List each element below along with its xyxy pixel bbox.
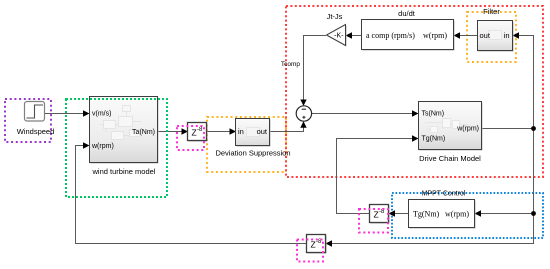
svg-text:Tcomp: Tcomp [281,61,301,68]
svg-text:w(rpm): w(rpm) [445,209,469,218]
wire Ta(Nm) to Z1 [158,128,189,134]
svg-text:Z: Z [374,210,379,220]
svg-text:Tg(Nm): Tg(Nm) [413,209,440,218]
block Deviation Suppression [215,119,290,158]
svg-text:Filter: Filter [483,7,500,16]
annotation box green wind turbine model group [66,99,167,197]
wire Z3 to wind turbine w(rpm) [76,142,307,243]
junction dot at MPPT tap [531,211,536,216]
sum junction [296,106,311,121]
block gain Jt-Js [327,12,347,47]
block Windspeed step source [17,102,55,137]
svg-text:-8: -8 [197,127,203,133]
annotation box yellow Filter group [467,12,516,62]
wire Z1 to Deviation Suppression in [207,128,237,134]
svg-text:a comp (rpm/s): a comp (rpm/s) [366,31,415,40]
wire Z2 up to Drive Chain Tg(Nm) [337,135,419,213]
svg-text:w(rpm): w(rpm) [456,126,479,133]
annotation box blue MPPT Control group [392,193,543,238]
svg-text:in: in [504,31,510,40]
wire gain out down to sum top (Tcomp) [300,36,326,106]
wire right bus up to Filter in [513,32,534,128]
svg-text:Ts(Nm): Ts(Nm) [422,111,445,118]
annotation box red compensation group [286,6,543,177]
block MPPT controller [409,200,476,229]
svg-text:v(m/s): v(m/s) [92,111,111,118]
svg-text:w(rpm): w(rpm) [91,143,114,150]
block Drive Chain Model subsystem [419,102,483,164]
svg-text:out: out [257,127,268,136]
wire Deviation Suppression out to sum bottom [270,121,307,131]
svg-text:MPPT Control: MPPT Control [422,191,466,198]
svg-text:Windspeed: Windspeed [17,127,55,136]
svg-text:Z: Z [192,128,197,138]
svg-text:-K-: -K- [334,33,344,40]
annotation box magenta around unit delay Z2 [359,209,388,233]
wire right bus down to MPPT w(rpm) [475,129,534,217]
svg-text:Tg(Nm): Tg(Nm) [422,136,446,143]
wire du/dt out to gain [346,32,362,38]
block unit delay Z2 [370,205,390,224]
svg-text:Jt-Js: Jt-Js [327,12,343,21]
svg-text:in: in [238,127,244,136]
block unit delay Z1 [188,123,208,142]
svg-text:Ta(Nm): Ta(Nm) [132,129,155,136]
block du/dt derivative compensation [362,9,455,51]
svg-text:Drive Chain Model: Drive Chain Model [419,154,481,163]
svg-text:out: out [480,31,491,40]
annotation box purple Windspeed group [5,99,51,142]
label Tcomp [281,61,301,68]
svg-text:w(rpm): w(rpm) [423,31,447,40]
wire Filter out to du/dt [454,32,478,38]
wire sum out to Ts(Nm) [312,110,419,116]
svg-text:du/dt: du/dt [398,9,416,18]
svg-text:Z: Z [311,240,316,250]
svg-text:Deviation Suppression: Deviation Suppression [215,149,290,158]
wire MPPT Tg(Nm) to Z2 [389,210,409,216]
junction dot at w(rpm) bus top [531,126,536,131]
annotation box magenta around unit delay Z1 [177,126,204,150]
wire right bus down to bottom feedback and Z3 [326,214,534,247]
annotation box yellow Deviation Suppression group [207,117,286,172]
block Filter [478,7,514,52]
wire Windspeed to v(m/s) [45,110,90,116]
svg-text:wind turbine model: wind turbine model [92,167,156,176]
wire Drive Chain w(rpm) to right bus [482,128,534,130]
block unit delay Z3 [307,235,327,254]
block wind turbine model subsystem [90,97,159,177]
label MPPT Control [422,191,466,198]
annotation box magenta around unit delay Z3 [297,240,323,262]
